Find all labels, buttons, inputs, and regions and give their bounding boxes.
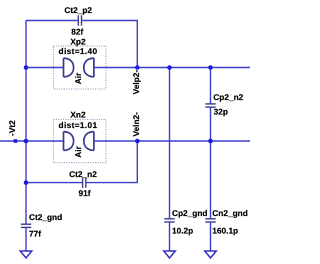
svg-text:82f: 82f (71, 27, 83, 37)
junction bus2 Cn2 (208, 139, 213, 144)
wire bottom bus (94, 140, 250, 142)
node -Vt2 (7, 120, 17, 143)
wire left rail upper (25, 21, 27, 225)
wire Ct2_n2 row right with riser (87, 141, 138, 183)
capacitor Ct2_n2 (69, 169, 97, 198)
wire Xp2 input (26, 67, 64, 69)
junction bus Cp2_gnd (167, 65, 172, 70)
junction left Vt2 (24, 139, 29, 144)
junction bus Cp2_n2 (208, 65, 213, 70)
wire Ct2_n2 row left (26, 182, 82, 184)
svg-text:Cn2_gnd: Cn2_gnd (212, 208, 248, 218)
svg-text:Ct2_p2: Ct2_p2 (64, 5, 92, 15)
capacitor Ct2_p2 (64, 5, 92, 37)
junction bus2 Veln2 (135, 139, 140, 144)
svg-text:32p: 32p (214, 106, 228, 116)
svg-text:Air: Air (73, 145, 83, 157)
junction bus Velp2 (135, 65, 140, 70)
svg-text:Velp2-: Velp2- (131, 70, 141, 95)
svg-text:dist=1.40: dist=1.40 (59, 46, 98, 56)
capacitor Cp2_gnd (164, 208, 207, 235)
wire Cn2_gnd lower (210, 222, 212, 251)
svg-text:77f: 77f (29, 228, 41, 238)
wire Cp2_n2 drop (210, 68, 212, 104)
wire left rail lower (25, 228, 27, 251)
svg-text:Xn2: Xn2 (70, 110, 86, 120)
svg-text:Ct2_n2: Ct2_n2 (69, 169, 97, 179)
svg-text:Ct2_gnd: Ct2_gnd (29, 212, 62, 222)
svg-text:-Vt2: -Vt2 (7, 120, 17, 136)
svg-text:dist=1.01: dist=1.01 (59, 120, 98, 130)
ground left (20, 251, 32, 258)
wire Cp2_gnd drop (169, 68, 171, 219)
svg-text:Cp2_n2: Cp2_n2 (213, 92, 243, 102)
junction left Xp2 (24, 65, 29, 70)
ground Cp2_gnd (164, 251, 176, 258)
svg-text:Veln2-: Veln2- (131, 112, 141, 137)
coupler Xn2 (53, 110, 106, 163)
wire top right segment with drop (82, 21, 137, 68)
svg-text:160.1p: 160.1p (212, 225, 238, 235)
svg-text:Cp2_gnd: Cp2_gnd (172, 208, 208, 218)
ground Cn2_gnd (205, 251, 217, 258)
svg-text:91f: 91f (79, 188, 91, 198)
wire -Vt2 row / Xn2 input (0, 140, 64, 142)
coupler Xp2 (53, 37, 106, 89)
wire Cp2_gnd lower (169, 222, 171, 251)
wire top left segment (26, 20, 78, 22)
svg-text:10.2p: 10.2p (172, 225, 193, 235)
wire Cp2_n2 to bottom bus and down (210, 107, 212, 219)
junction left Ct2_n2 (24, 180, 29, 185)
capacitor Ct2_gnd (21, 212, 62, 239)
capacitor Cp2_n2 (205, 92, 243, 117)
svg-text:Xp2: Xp2 (70, 37, 86, 47)
wire top bus (94, 67, 250, 69)
capacitor Cn2_gnd (205, 208, 248, 235)
svg-text:Air: Air (73, 72, 83, 84)
